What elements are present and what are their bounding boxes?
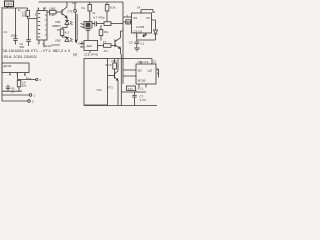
svg-text:ТШ:15/4004 ±8 УТ1 – УТ1: 982,2: ТШ:15/4004 ±8 УТ1 – УТ1: 982,2 ± 3 — [1, 49, 70, 53]
svg-text:0,1: 0,1 — [140, 41, 144, 45]
svg-text:УТ1: УТ1 — [108, 86, 114, 90]
svg-text:20к: 20к — [22, 84, 27, 88]
svg-text:УВЗ: УВЗ — [55, 39, 61, 43]
svg-text:ЦВ2: ЦВ2 — [50, 7, 56, 11]
svg-text:1Х7: 1Х7 — [128, 87, 133, 91]
svg-text:1000: 1000 — [10, 33, 17, 37]
svg-text:Г7: Г7 — [103, 40, 107, 44]
svg-text:4,7 470р: 4,7 470р — [93, 16, 105, 20]
svg-text:СЗ: СЗ — [129, 41, 133, 45]
svg-text:СЭ ОЭ: СЭ ОЭ — [134, 29, 142, 33]
svg-text:17П: 17П — [72, 1, 77, 5]
svg-text:8,3к: 8,3к — [110, 6, 116, 10]
svg-text:В2: В2 — [138, 68, 142, 72]
svg-text:УТ1: УТ1 — [67, 9, 73, 13]
svg-text:Рн: Рн — [82, 6, 86, 10]
svg-text:14: 14 — [137, 6, 141, 10]
svg-text:(а): (а) — [73, 53, 77, 57]
svg-text:ХТ2: ХТ2 — [97, 88, 103, 92]
svg-text:В1: В1 — [134, 16, 138, 20]
svg-text:С9: С9 — [146, 16, 150, 20]
svg-text:ЬЮ: ЬЮ — [112, 59, 117, 63]
svg-text:ДА2: ДА2 — [87, 44, 93, 48]
svg-text:5-1К: 5-1К — [106, 63, 112, 67]
svg-text:В: В — [157, 72, 159, 76]
svg-text:5,1к: 5,1к — [49, 13, 55, 17]
svg-text:СРО СЭ: СРО СЭ — [138, 60, 149, 64]
svg-text:КВ503: КВ503 — [52, 24, 61, 28]
svg-text:К1.1: К1.1 — [138, 87, 144, 91]
svg-text:15к: 15к — [104, 30, 109, 34]
svg-text:С1: С1 — [4, 30, 8, 34]
svg-text:ВСЗВ: ВСЗВ — [138, 78, 146, 82]
svg-text:4,3: 4,3 — [65, 31, 70, 35]
svg-text:12: 12 — [153, 59, 157, 63]
svg-text:1 В1А: 2СВ1 СВ4011: 1 В1А: 2СВ1 СВ4011 — [1, 55, 37, 59]
svg-text:1СОВ: 1СОВ — [136, 25, 144, 29]
svg-text:ЦК1: ЦК1 — [6, 2, 12, 6]
svg-text:4,7П: 4,7П — [140, 98, 146, 102]
svg-text:АЛ307: АЛ307 — [51, 43, 60, 47]
svg-text:Р1а: Р1а — [26, 76, 32, 80]
svg-text:16: 16 — [43, 6, 47, 10]
svg-text:ДА1М: ДА1М — [4, 64, 12, 68]
svg-text:300: 300 — [22, 13, 27, 17]
svg-text:Рб: Рб — [57, 28, 61, 32]
svg-text:2СЕ 1РЧ0: 2СЕ 1РЧ0 — [84, 53, 98, 57]
